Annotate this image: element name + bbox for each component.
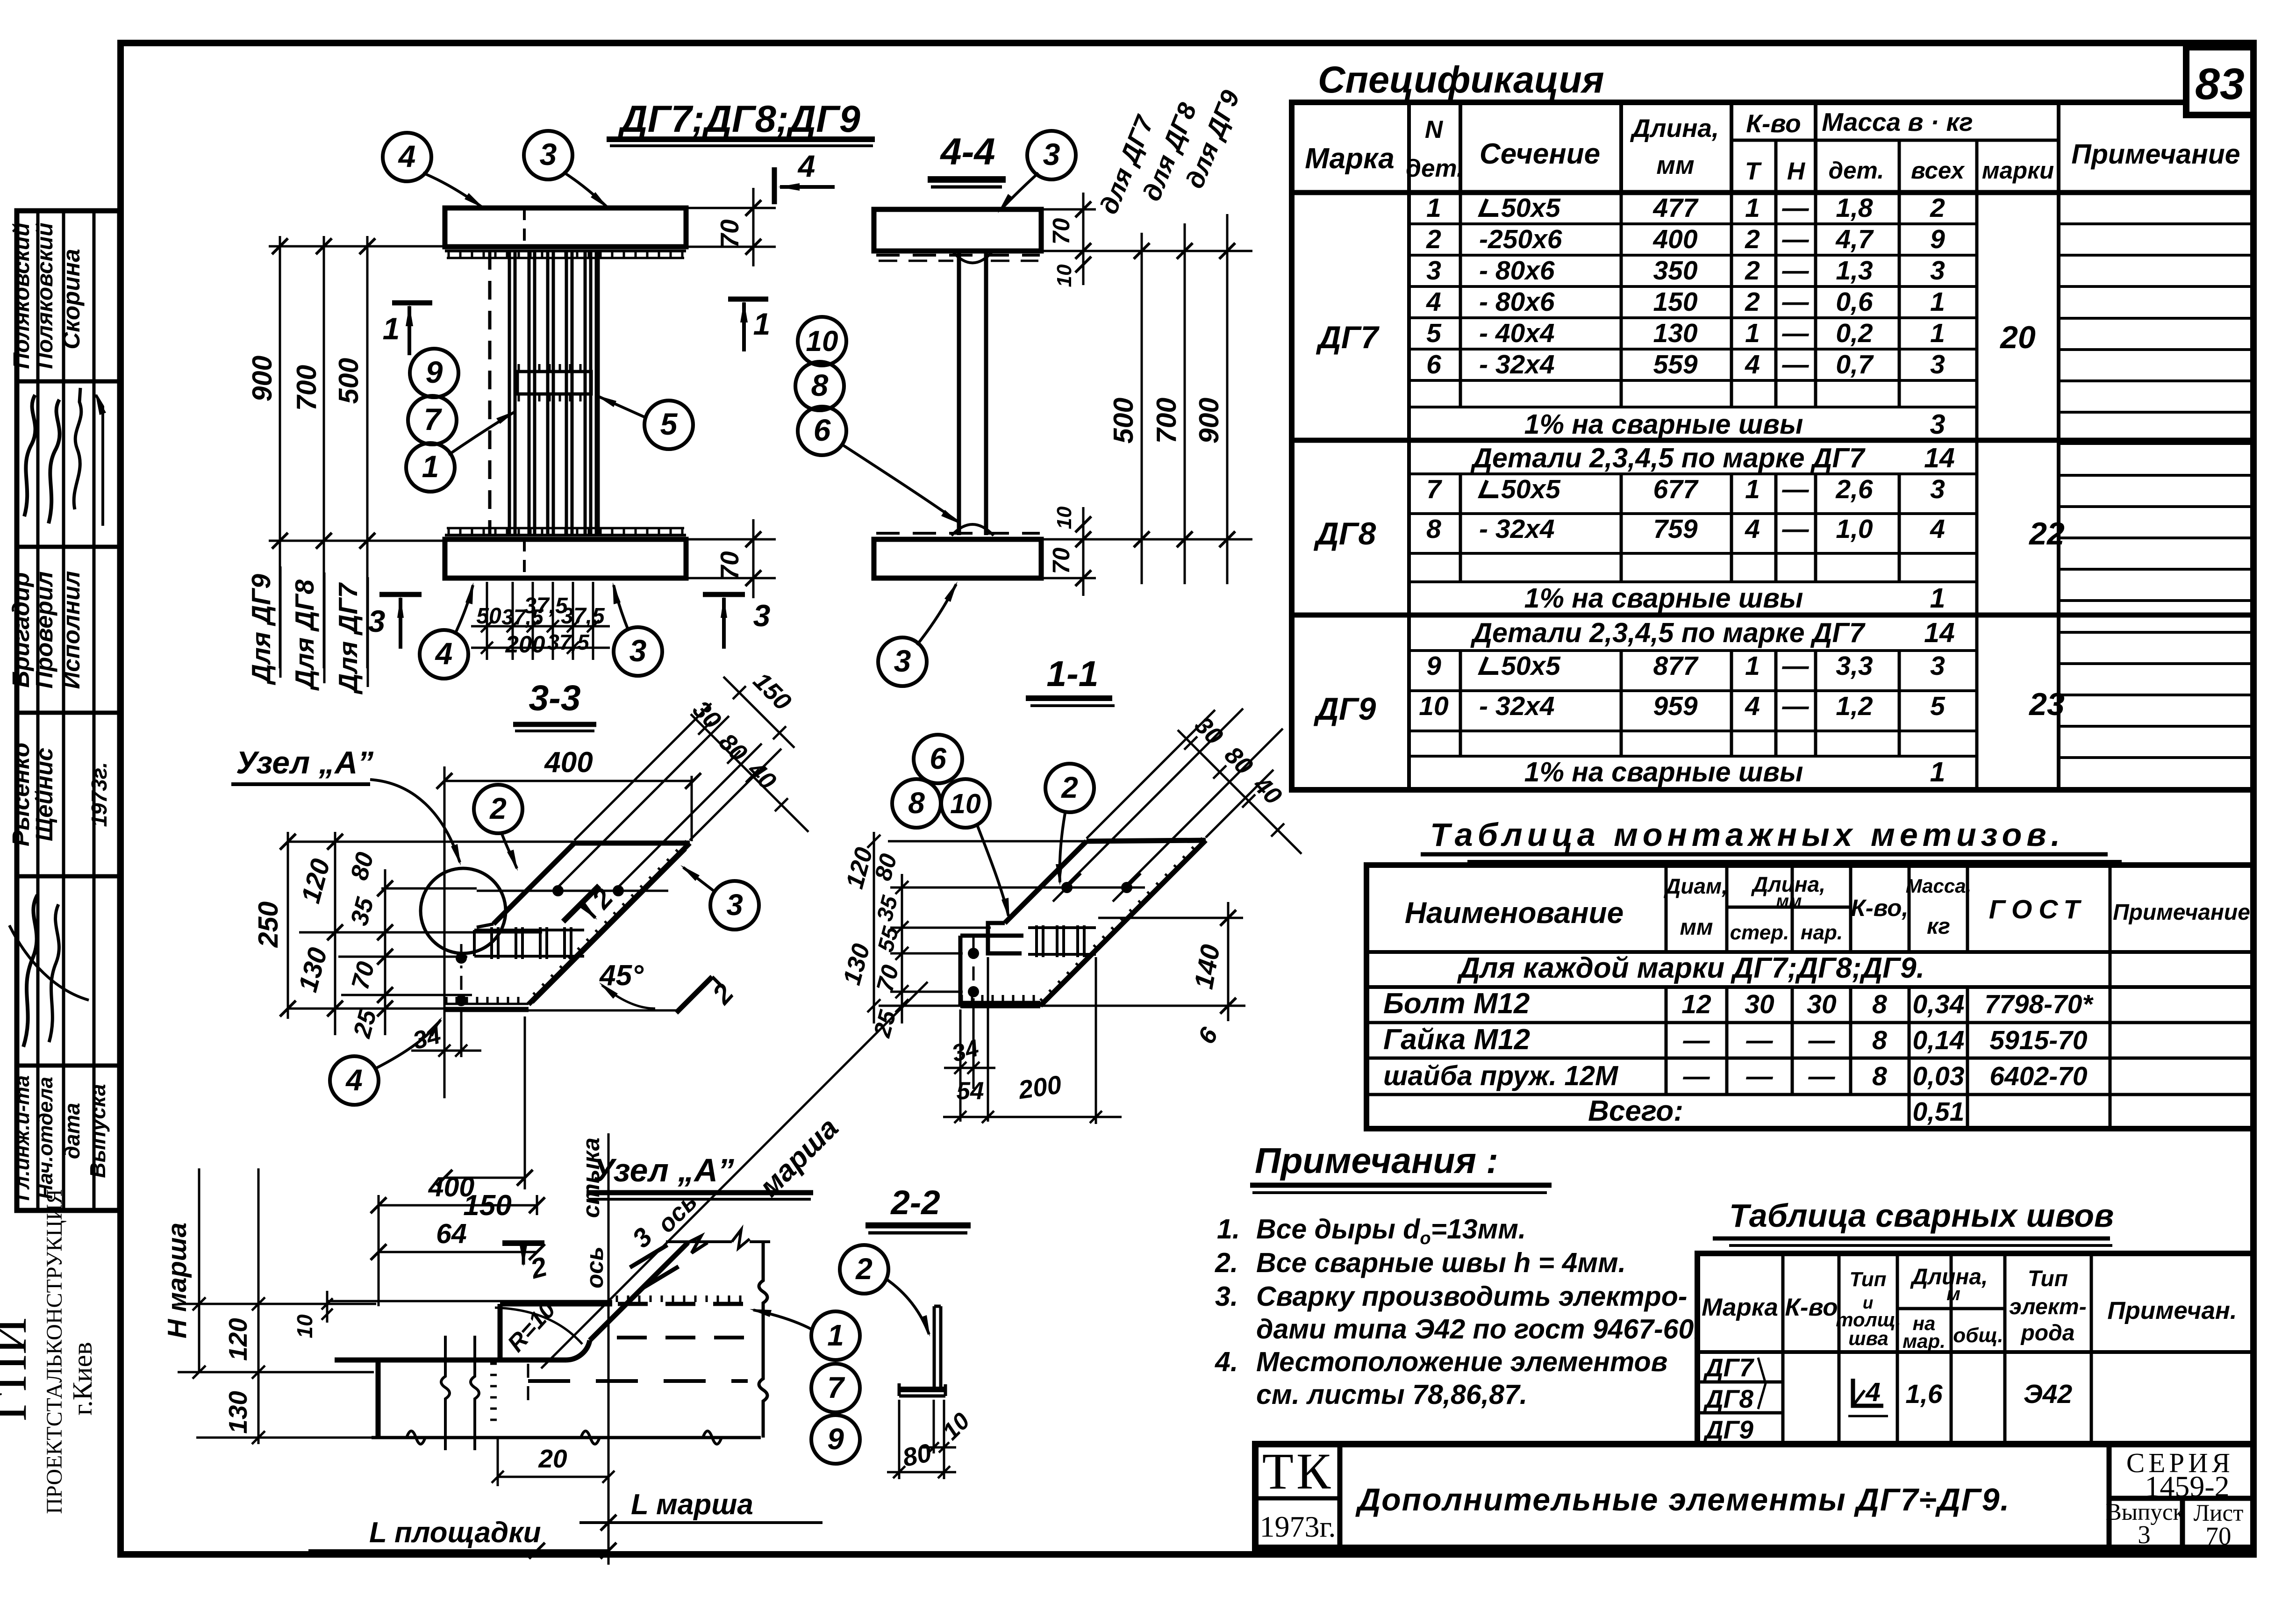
svg-text:3: 3 <box>1930 256 1945 286</box>
svg-text:К-во: К-во <box>1785 1294 1838 1321</box>
svg-text:700: 700 <box>291 365 322 411</box>
svg-text:Поляковский: Поляковский <box>33 222 57 369</box>
svg-text:7: 7 <box>1426 474 1442 504</box>
balloon 1 <box>406 443 455 492</box>
svg-text:2: 2 <box>1930 193 1945 223</box>
svg-text:ПРОЕКТСТАЛЬКОНСТРУКЦИЯ: ПРОЕКТСТАЛЬКОНСТРУКЦИЯ <box>42 1189 67 1514</box>
1-1 tread comb <box>1028 926 1096 929</box>
uzel A bottom edge <box>372 1436 761 1439</box>
title block partitions <box>1338 1444 1343 1548</box>
svg-text:Детали 2,3,4,5 по марке ДГ7: Детали 2,3,4,5 по марке ДГ7 <box>1470 617 1866 648</box>
2-2 thickness dim 10 <box>922 1446 956 1449</box>
svg-text:—: — <box>1782 193 1810 223</box>
svg-text:70: 70 <box>1048 218 1074 245</box>
svg-text:12: 12 <box>1681 989 1711 1019</box>
3-3 bolt holes on vertical <box>460 944 463 1016</box>
balloon 9 <box>410 349 458 397</box>
svg-text:—: — <box>1782 256 1810 286</box>
uzel A platform left vertical <box>498 1304 503 1360</box>
spec table outer border <box>1292 102 2253 790</box>
svg-text:шва: шва <box>1848 1327 1888 1349</box>
1-1 bolt holes on vertical <box>973 935 975 1009</box>
balloon 7 <box>408 396 457 444</box>
svg-text:Примечан.: Примечан. <box>2107 1297 2237 1324</box>
svg-text:Гайка М12: Гайка М12 <box>1383 1023 1530 1056</box>
svg-text:37,5: 37,5 <box>501 605 544 629</box>
uzel A stringer break zigzag <box>688 1236 708 1253</box>
svg-text:200: 200 <box>1016 1070 1064 1104</box>
3-3 left dimension ticks <box>280 834 296 850</box>
3-3 left dimension lines <box>287 832 289 1019</box>
svg-text:ось: ось <box>581 1246 608 1288</box>
svg-text:ТК: ТК <box>1262 1443 1334 1500</box>
1-1 balloon 2 <box>1045 764 1094 812</box>
svg-text:Нач.отдела: Нач.отдела <box>34 1077 57 1199</box>
svg-text:1,2: 1,2 <box>1836 691 1873 721</box>
balloon 3 bottom <box>614 627 662 676</box>
svg-text:400: 400 <box>1652 224 1697 254</box>
3-3 plate lower diagonal edge <box>529 843 690 1004</box>
svg-text:—: — <box>1782 350 1810 379</box>
1-1 left dimension ticks <box>895 881 908 894</box>
svg-text:Всего:: Всего: <box>1588 1095 1683 1127</box>
svg-text:дет.: дет. <box>1406 155 1463 182</box>
svg-text:23: 23 <box>2028 687 2065 722</box>
uzel A platform plate top edge <box>327 1300 612 1302</box>
svg-text:ДГ7;ДГ8;ДГ9: ДГ7;ДГ8;ДГ9 <box>617 98 860 140</box>
3-3 dim 150 <box>444 1177 525 1179</box>
3-3 balloon 2 <box>474 785 522 833</box>
uzel A circle <box>421 868 506 953</box>
svg-text:Масса в · кг: Масса в · кг <box>1822 107 1973 136</box>
svg-text:- 40x4: - 40x4 <box>1479 318 1555 348</box>
3-3 dim 400 <box>444 780 693 782</box>
weld table grid <box>1781 1253 1785 1444</box>
svg-text:6402-70: 6402-70 <box>1989 1061 2087 1091</box>
svg-text:1973г.: 1973г. <box>1259 1510 1336 1543</box>
svg-text:10: 10 <box>950 788 981 819</box>
svg-text:Болт М12: Болт М12 <box>1383 988 1530 1020</box>
svg-text:5: 5 <box>1930 691 1946 721</box>
weld table brace <box>1758 1358 1766 1409</box>
uzel A balloon 7 <box>811 1364 860 1412</box>
svg-text:—: — <box>1683 1025 1710 1055</box>
1-1 left extension lines <box>890 927 991 929</box>
svg-text:Рысенко: Рысенко <box>7 743 34 846</box>
svg-text:L площадки: L площадки <box>369 1517 541 1549</box>
svg-text:80: 80 <box>900 1438 934 1472</box>
main view flange thickness dim 70 bottom <box>687 538 776 541</box>
svg-text:8: 8 <box>1872 1061 1887 1091</box>
uzel A hidden dash vertical <box>527 1364 529 1404</box>
3-3 diagonal dim ticks <box>698 722 711 735</box>
svg-text:83: 83 <box>2195 59 2245 109</box>
4-4 bottom flange hidden lines <box>876 532 1040 535</box>
svg-text:0,6: 0,6 <box>1836 287 1873 317</box>
balloon 5 <box>644 401 693 449</box>
svg-text:3: 3 <box>1043 137 1060 172</box>
1-1 diagonal dim extension lines <box>1087 710 1215 838</box>
uzel A dim 10 <box>326 1291 329 1323</box>
svg-text:—: — <box>1782 474 1810 504</box>
svg-text:- 32x4: - 32x4 <box>1479 350 1555 379</box>
svg-text:2: 2 <box>1745 224 1760 254</box>
svg-text:—: — <box>1782 651 1810 681</box>
svg-text:4-4: 4-4 <box>939 131 995 173</box>
svg-text:3: 3 <box>2138 1520 2151 1549</box>
3-3 dim 34 <box>411 1050 481 1052</box>
svg-text:4: 4 <box>1426 287 1441 317</box>
svg-text:Все дыры do=13мм.: Все дыры do=13мм. <box>1256 1214 1526 1248</box>
svg-text:37,5: 37,5 <box>547 630 590 654</box>
svg-text:Н марша: Н марша <box>162 1223 192 1338</box>
svg-text:350: 350 <box>1653 256 1697 286</box>
svg-text:ДГ7: ДГ7 <box>1316 320 1380 355</box>
stamp table grid <box>17 211 120 1210</box>
svg-text:3: 3 <box>629 633 647 668</box>
1-1 bolt holes on diagonal <box>918 887 1145 889</box>
uzel A fillet R10 <box>566 1340 590 1360</box>
uzel A balloon 1 <box>811 1311 860 1360</box>
svg-text:ДГ9: ДГ9 <box>1703 1415 1753 1444</box>
spec table column lines body <box>1407 193 1411 790</box>
svg-text:4: 4 <box>398 139 416 173</box>
3-3 section mark 2 bottom <box>502 1240 544 1246</box>
svg-text:1: 1 <box>1745 474 1760 504</box>
svg-text:нар.: нар. <box>1801 921 1843 944</box>
svg-text:—: — <box>1746 1025 1774 1055</box>
svg-text:мм: мм <box>1656 150 1694 179</box>
svg-text:2-2: 2-2 <box>890 1184 940 1222</box>
svg-text:1,3: 1,3 <box>1836 256 1873 286</box>
1-1 diagonal dim ticks <box>1184 737 1197 750</box>
svg-text:9: 9 <box>827 1422 844 1456</box>
mounting hardware table border <box>1366 865 2253 1129</box>
svg-text:3-3: 3-3 <box>529 678 580 718</box>
4-4 balloon 8 <box>795 362 844 410</box>
uzel A bottom edge break marks <box>407 1431 425 1444</box>
uzel A bottom chord line <box>335 1358 566 1363</box>
main view bottom flange weld seam <box>445 534 686 537</box>
svg-text:мм: мм <box>1680 915 1713 940</box>
uzel A balloon 9 <box>811 1415 860 1464</box>
main view left dimension ticks <box>272 238 288 254</box>
spec note column row lines <box>2059 222 2253 225</box>
main view bottom flange <box>445 539 686 578</box>
svg-text:—: — <box>1782 224 1810 254</box>
main view bottom small dimensions <box>486 582 488 660</box>
1-1 plate lower diagonal edge <box>1040 840 1206 1006</box>
3-3 balloon 4 <box>330 1056 379 1105</box>
uzel A joint axis vertical <box>608 1133 610 1565</box>
svg-text:2,6: 2,6 <box>1835 474 1873 504</box>
svg-text:8: 8 <box>908 786 925 820</box>
svg-text:5: 5 <box>660 407 678 441</box>
svg-text:—: — <box>1782 691 1810 721</box>
3-3 plate top edge <box>574 841 690 846</box>
svg-text:1: 1 <box>422 449 439 484</box>
svg-text:элект-: элект- <box>2009 1295 2086 1319</box>
svg-text:3: 3 <box>894 644 911 678</box>
3-3 diagonal weld serration <box>685 841 690 846</box>
3-3 bolt holes on diagonal <box>477 890 668 892</box>
4-4 right dimension ticks <box>1134 243 1150 259</box>
2-2 vertical plate <box>933 1306 936 1388</box>
svg-text:Поляковский: Поляковский <box>9 222 34 369</box>
svg-text:—: — <box>1782 514 1810 544</box>
3-3 balloon 3 <box>710 881 759 930</box>
svg-text:N: N <box>1425 116 1444 143</box>
svg-text:0,34: 0,34 <box>1913 989 1965 1019</box>
svg-text:Примечание: Примечание <box>2113 900 2250 925</box>
svg-text:мар.: мар. <box>1903 1330 1946 1352</box>
svg-text:37,5: 37,5 <box>561 604 605 629</box>
svg-text:Наименование: Наименование <box>1405 896 1624 930</box>
section mark 4 top <box>772 167 777 204</box>
svg-text:Сварку производить электро-: Сварку производить электро- <box>1256 1281 1687 1312</box>
svg-text:—: — <box>1782 318 1810 348</box>
svg-text:50x5: 50x5 <box>1501 474 1561 504</box>
svg-text:500: 500 <box>1108 398 1139 444</box>
svg-text:Местоположение элементов: Местоположение элементов <box>1256 1346 1667 1377</box>
svg-text:Сечение: Сечение <box>1480 138 1600 170</box>
1-1 balloon 10 <box>941 779 990 828</box>
3-3 section mark 2 top <box>563 886 599 922</box>
svg-text:Детали 2,3,4,5 по марке ДГ7: Детали 2,3,4,5 по марке ДГ7 <box>1470 443 1866 473</box>
svg-text:70: 70 <box>715 551 744 580</box>
svg-text:Гл.инж.и-та: Гл.инж.и-та <box>11 1075 34 1201</box>
svg-text:дет.: дет. <box>1829 157 1884 184</box>
svg-text:500: 500 <box>333 358 364 404</box>
svg-text:2: 2 <box>1061 771 1078 804</box>
svg-text:L марша: L марша <box>631 1488 753 1521</box>
svg-text:—: — <box>1782 287 1810 317</box>
svg-text:3: 3 <box>753 598 771 633</box>
svg-text:4: 4 <box>1930 514 1945 544</box>
3-3 diagonal dimension chain <box>691 714 808 832</box>
svg-text:2: 2 <box>855 1252 873 1286</box>
svg-text:7: 7 <box>424 402 443 437</box>
uzel A dim 130 <box>252 1431 265 1444</box>
svg-text:Диам,: Диам, <box>1663 874 1728 898</box>
svg-text:9: 9 <box>426 355 443 389</box>
svg-text:Тип: Тип <box>1850 1268 1887 1291</box>
svg-text:Узел „А”: Узел „А” <box>593 1152 734 1188</box>
4-4 balloon 10 <box>798 317 846 365</box>
svg-text:64: 64 <box>436 1218 467 1249</box>
title block outer <box>1255 1444 2253 1548</box>
svg-text:4.: 4. <box>1215 1346 1238 1377</box>
3-3 plate bottom edge <box>444 1003 529 1005</box>
2-2 bottom flange <box>899 1387 945 1392</box>
svg-text:дата: дата <box>60 1103 84 1159</box>
svg-text:- 32x4: - 32x4 <box>1479 514 1555 544</box>
uzel A leader <box>370 780 460 862</box>
svg-text:К-во: К-во <box>1746 109 1801 138</box>
1-1 balloon 6 <box>914 735 962 783</box>
balloon 4 bottom <box>420 630 468 679</box>
spec block divider lines <box>1292 438 2253 443</box>
notes title underline <box>1250 1183 1552 1188</box>
svg-text:стыка: стыка <box>578 1138 604 1218</box>
svg-text:мм: мм <box>1776 891 1802 910</box>
1-1 plate upper diagonal edge <box>1005 841 1087 923</box>
svg-text:3: 3 <box>540 137 557 172</box>
svg-text:ДГ8: ДГ8 <box>1703 1384 1753 1413</box>
svg-text:дами типа Э42 по гост 9467-60.: дами типа Э42 по гост 9467-60. <box>1256 1314 1702 1345</box>
1-1 diagonal weld serration <box>1201 838 1206 843</box>
svg-text:9: 9 <box>1426 651 1441 681</box>
svg-text:559: 559 <box>1653 350 1697 379</box>
svg-text:Для ДГ9: Для ДГ9 <box>246 574 276 686</box>
svg-text:ГПИ: ГПИ <box>0 1317 37 1421</box>
svg-text:Таблица сварных швов: Таблица сварных швов <box>1729 1197 2114 1234</box>
svg-text:3: 3 <box>1930 474 1945 504</box>
svg-text:4,7: 4,7 <box>1835 224 1874 254</box>
svg-text:5: 5 <box>1426 318 1442 348</box>
svg-text:марки: марки <box>1982 157 2054 184</box>
section mark 1 left <box>392 301 432 306</box>
svg-text:Примечание: Примечание <box>2071 139 2240 170</box>
4-4 bottom weld bead <box>951 524 994 536</box>
main view flange thickness dim 70 top <box>687 207 776 209</box>
4-4 balloon 3 top <box>1027 131 1076 179</box>
1-1 left dimension lines <box>901 874 903 1023</box>
svg-text:г.Киев: г.Киев <box>67 1342 98 1415</box>
svg-text:677: 677 <box>1653 474 1698 504</box>
uzel A R10 leader <box>495 1308 582 1344</box>
svg-text:6: 6 <box>1426 350 1441 379</box>
4-4 top flange hidden lines <box>876 254 1040 257</box>
svg-text:759: 759 <box>1653 514 1697 544</box>
1-1 diagonal dimension chain <box>1178 730 1302 854</box>
uzel A dim 64 <box>379 1251 537 1253</box>
weld symbol and size <box>1853 1379 1883 1406</box>
main view web plates <box>488 251 492 535</box>
svg-text:2: 2 <box>1745 256 1760 286</box>
svg-text:Марка: Марка <box>1702 1294 1778 1321</box>
svg-text:4: 4 <box>435 636 453 671</box>
svg-text:130: 130 <box>1653 318 1697 348</box>
svg-text:всех: всех <box>1911 157 1966 184</box>
weld table title underline <box>1713 1237 2110 1241</box>
1-1 bottom dimensions <box>959 1009 962 1122</box>
svg-text:4: 4 <box>1745 514 1760 544</box>
svg-text:—: — <box>1683 1061 1710 1091</box>
svg-text:8: 8 <box>1872 989 1887 1019</box>
3-3 left extension lines <box>288 841 582 843</box>
svg-text:70: 70 <box>1048 548 1074 574</box>
uzel A platform dashed weld edge <box>618 1302 753 1306</box>
svg-text:2: 2 <box>1426 224 1441 254</box>
svg-text:6: 6 <box>814 413 831 447</box>
svg-text:ГОСТ: ГОСТ <box>1989 895 2086 924</box>
svg-text:1: 1 <box>1745 193 1760 223</box>
spec table row lines <box>1409 222 1977 225</box>
svg-text:Э42: Э42 <box>2024 1379 2073 1409</box>
svg-text:—: — <box>1808 1061 1836 1091</box>
svg-text:1: 1 <box>383 311 400 346</box>
svg-text:1: 1 <box>753 307 771 341</box>
svg-text:Для ДГ7: Для ДГ7 <box>333 582 363 695</box>
main view left dimension lines <box>279 236 281 668</box>
svg-text:-250x6: -250x6 <box>1479 224 1562 254</box>
svg-text:400: 400 <box>544 746 593 779</box>
4-4 right extension lines <box>1042 250 1252 252</box>
svg-text:0,7: 0,7 <box>1836 350 1874 379</box>
svg-text:3: 3 <box>726 888 743 922</box>
svg-text:0,51: 0,51 <box>1913 1097 1965 1127</box>
1-1 left box <box>960 934 1023 938</box>
svg-text:—: — <box>1808 1025 1836 1055</box>
svg-text:50x5: 50x5 <box>1501 651 1561 681</box>
1-1 dim 140 <box>1098 917 1243 919</box>
svg-text:Масса,: Масса, <box>1906 875 1972 897</box>
svg-text:Исполнил: Исполнил <box>58 571 85 689</box>
uzel A weld seam ticks <box>490 1363 497 1365</box>
4-4 balloon 6 <box>798 407 846 455</box>
svg-text:ДГ8: ДГ8 <box>1314 516 1376 551</box>
3-3 diagonal dim extension lines <box>574 703 711 840</box>
4-4 top flange <box>874 209 1041 251</box>
svg-text:м: м <box>1946 1284 1960 1304</box>
svg-text:4: 4 <box>1745 691 1760 721</box>
3-3 weld mark 2 right <box>676 977 712 1013</box>
main view top flange weld seam <box>445 250 686 252</box>
svg-text:3,3: 3,3 <box>1836 651 1873 681</box>
mounting hardware table grid <box>1665 865 1668 952</box>
svg-text:959: 959 <box>1653 691 1697 721</box>
svg-text:Щейнис: Щейнис <box>31 748 57 841</box>
svg-text:1: 1 <box>1930 287 1945 317</box>
svg-text:1: 1 <box>1930 757 1946 787</box>
balloon 4 top <box>383 133 431 181</box>
svg-text:120: 120 <box>223 1318 252 1361</box>
svg-text:50: 50 <box>476 604 501 629</box>
uzel A dim H marsha <box>198 1168 200 1372</box>
4-4 top weld bead <box>953 252 992 263</box>
uzel A left extension lines <box>178 1303 376 1305</box>
svg-text:1: 1 <box>1930 583 1946 614</box>
3-3 axis vertical line <box>443 766 446 1098</box>
svg-text:3: 3 <box>1426 256 1441 286</box>
svg-text:—: — <box>1746 1061 1774 1091</box>
4-4 balloon 3 bottom <box>878 637 927 686</box>
svg-text:70: 70 <box>715 219 744 248</box>
svg-text:6: 6 <box>930 742 946 775</box>
svg-text:20: 20 <box>538 1444 567 1473</box>
section mark 3 left <box>379 592 422 597</box>
svg-text:3.: 3. <box>1215 1281 1238 1312</box>
svg-text:- 80x6: - 80x6 <box>1479 287 1555 317</box>
uzel A stringer top edge <box>666 1240 732 1243</box>
svg-text:Для каждой марки ДГ7;ДГ8;ДГ9.: Для каждой марки ДГ7;ДГ8;ДГ9. <box>1457 952 1924 984</box>
section mark 1 right <box>728 297 768 302</box>
1-1 plate bottom edge <box>960 1001 1040 1003</box>
svg-text:0,03: 0,03 <box>1913 1061 1965 1091</box>
svg-text:К-во,: К-во, <box>1851 895 1908 921</box>
main view left dimension extension lines <box>269 245 445 248</box>
1-1 plate top edge <box>1087 840 1206 841</box>
svg-text:1.: 1. <box>1217 1214 1240 1245</box>
svg-text:400: 400 <box>428 1172 475 1202</box>
svg-text:130: 130 <box>223 1391 252 1434</box>
svg-text:250: 250 <box>253 902 284 948</box>
svg-text:Марка: Марка <box>1305 143 1394 175</box>
svg-text:10: 10 <box>1419 691 1449 721</box>
svg-text:20: 20 <box>1999 320 2036 355</box>
svg-text:Дополнительные элементы ДГ7÷: Дополнительные элементы ДГ7÷ДГ9. <box>1355 1482 2010 1517</box>
